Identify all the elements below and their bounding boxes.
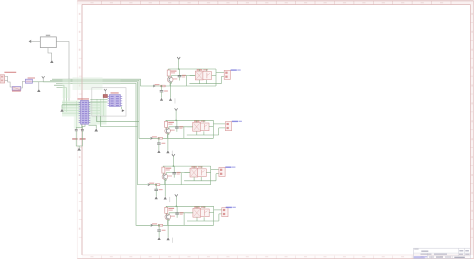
wire bus line3 to row3 [43, 82, 148, 185]
wire drop to IC1 pins b [57, 88, 67, 108]
wire relay K1 bottom pins [198, 80, 200, 84]
wire X1 pin2 [5, 80, 8, 82]
wire relay K1 left pin [190, 75, 196, 77]
vcc arrow above D2 [104, 91, 106, 95]
wire relay K2 top pins [196, 120, 198, 122]
wire relay K4 right pin [209, 212, 213, 214]
connector JP2 [225, 122, 231, 131]
wire IC1 left pin to ground [62, 104, 81, 106]
frame left line re-stroke over highlights [81, 77, 83, 130]
wire relay K1 top pins [198, 69, 200, 71]
transistor T3 label [168, 175, 172, 176]
sheet frame inner border [82, 4, 470, 6]
relay K3 label [191, 166, 196, 167]
wire emitter row 2 to ground [168, 133, 169, 150]
wire vcc rail row 3 [163, 165, 211, 167]
capacitor C2 label [80, 138, 86, 139]
wire emitter row 4 to ground [168, 219, 169, 237]
diode D1 label [12, 90, 21, 91]
IC1 label [78, 98, 90, 99]
wire base rail row 2 [151, 137, 214, 139]
battery B1 label [46, 35, 50, 36]
wire connector JP3 pin wires [211, 169, 219, 171]
capacitor C3a [173, 166, 175, 172]
IC2 driver [108, 95, 110, 97]
ground left of IC1 [60, 109, 63, 112]
capacitor C1 label [72, 138, 77, 139]
connector JP3 [219, 167, 225, 176]
wire collector row 2 to relay [168, 127, 170, 129]
wire L1 to VCC node [32, 81, 43, 83]
wire vcc rail row 1 [168, 68, 216, 70]
relay K4 coil [193, 208, 201, 217]
net label row 4 vertical [171, 238, 174, 243]
vcc symbol row 2 [175, 108, 178, 110]
relay K2 coil [193, 122, 201, 131]
highlighted nets around IC1 [73, 77, 103, 90]
wire connector JP1 pin wires [216, 72, 224, 74]
ground below B1 [50, 60, 53, 63]
transistor T4 label [171, 216, 175, 217]
wire bus line1 to row1 [43, 81, 56, 83]
net label row 2 vertical [171, 151, 174, 156]
resistor R2b base [158, 138, 162, 140]
connector JP2 label [232, 121, 238, 122]
connector JP1 [224, 70, 230, 79]
capacitor C3b label [159, 189, 163, 190]
inductor L1 [25, 79, 32, 83]
ground row 2 left [157, 150, 160, 153]
relay K3 coil [190, 168, 198, 177]
ground row 1 left [160, 98, 163, 101]
capacitor C2a label [179, 126, 183, 127]
resistor R4a pullup [165, 206, 167, 207]
capacitor C2b label [162, 143, 166, 144]
supply connector X1 [0, 75, 5, 83]
resistor R3a pullup [162, 166, 164, 167]
sheet frame strips [77, 1, 473, 5]
wire connector JP4 pin wires [214, 209, 222, 211]
wire D1 to L1 [21, 82, 26, 89]
resistor R2a label [168, 122, 174, 123]
wire relay K1 right pin [212, 74, 216, 76]
wire IC2 output to net arrow [120, 106, 122, 109]
wire X1 pin1 [5, 76, 13, 87]
wire B1 right pin to IC1 [56, 42, 80, 104]
capacitor C2b to ground [158, 138, 160, 140]
wire relay K3 right pin [206, 172, 210, 174]
capacitor C2a [176, 120, 178, 126]
relay K1 contact [203, 72, 212, 80]
wire emitter row 3 to ground [165, 179, 166, 197]
resistor R4b base [158, 225, 162, 227]
vcc net arrow at supply [42, 78, 44, 82]
wire vcc rail row 4 [166, 205, 214, 207]
resistor R3b base [155, 184, 159, 186]
wire IC1 to crystal caps [76, 124, 82, 129]
relay K2 label [194, 121, 199, 122]
resistor R1a label [171, 71, 177, 72]
ground row 3 left [155, 196, 158, 199]
diode D1 [12, 87, 21, 91]
ground below crystal caps [77, 148, 81, 151]
wire relay K3 left pin [184, 172, 190, 174]
connector JP3 label [225, 167, 231, 168]
capacitor C2 [81, 129, 84, 131]
wire collector row 4 to relay [168, 213, 170, 215]
wire IC2 bottom outputs to bus [97, 116, 139, 122]
relay K2 contact [200, 123, 209, 131]
ground right of IC1 [94, 128, 98, 131]
net label row 3 vertical [168, 197, 171, 202]
inductor L1 label [28, 77, 35, 78]
connector JP1 label [231, 69, 237, 70]
wire relay K4 top pins [196, 206, 198, 208]
capacitor C1b label [164, 90, 168, 91]
wire base rail row 3 [148, 184, 211, 186]
connector JP4 label [226, 207, 232, 208]
title block outline [413, 248, 470, 258]
capacitor C4a label [180, 212, 184, 213]
wire IC1 bottom to ground right [89, 125, 97, 128]
vcc symbol row 1 [177, 57, 180, 59]
group frame around IC2 [92, 88, 126, 116]
wire connector JP2 pin wires [213, 123, 225, 125]
wire vcc rail row 2 [166, 119, 214, 121]
wire caps to ground [76, 133, 79, 146]
battery B1 [40, 37, 56, 48]
supply connector X1 label [4, 72, 16, 73]
wire IC1 to IC2 [90, 99, 107, 101]
wire drop to IC1 pins a [54, 85, 64, 105]
wire relay K2 bottom pins [196, 131, 198, 135]
frame row ticks left/right [79, 21, 82, 23]
capacitor C1a [179, 69, 181, 75]
vcc symbol row 4 [175, 194, 178, 196]
ground row 4 left [158, 237, 161, 240]
wire relay K3 bottom pins [193, 177, 195, 181]
net label row 1 vertical [174, 98, 177, 103]
relay K4 label [194, 207, 199, 208]
capacitor C1 [75, 129, 78, 131]
wire relay K3 top pins [193, 166, 195, 168]
IC1 microcontroller [79, 101, 81, 103]
sheet frame outer border [77, 0, 473, 2]
net chevron row 4 input [151, 224, 153, 226]
wire relay K4 left pin [187, 212, 193, 214]
transistor T2 [165, 128, 171, 134]
net chevron row 1 input [153, 85, 155, 87]
transistor T1 [167, 77, 173, 83]
transistor T2 label [170, 130, 174, 131]
connector JP4 [222, 208, 228, 217]
ground row 4 emitter [167, 237, 170, 240]
resistor R1b base label [155, 84, 160, 85]
transistor T4 [165, 214, 171, 220]
frame column ticks top/bottom [100, 1, 102, 5]
wire collector row 3 to relay [165, 173, 167, 175]
resistor R4a label [169, 208, 175, 209]
capacitor C4b label [162, 230, 166, 231]
capacitor C4a [176, 206, 178, 212]
net chevron row 2 input [151, 137, 153, 139]
wire relay K2 left pin [187, 126, 193, 128]
resistor R2b base label [152, 136, 157, 137]
wire base rail row 1 [153, 85, 216, 87]
net arrow left of B1 [29, 40, 32, 43]
ground row 2 emitter [166, 150, 169, 153]
resistor R1a pullup [168, 69, 170, 70]
ground row 1 emitter [169, 98, 172, 101]
relay K1 label [197, 69, 202, 70]
capacitor C3b to ground [155, 184, 157, 186]
capacitor C1a label [182, 75, 186, 76]
transistor T3 [162, 174, 168, 180]
vcc symbol row 3 [172, 154, 175, 156]
resistor R4b base label [152, 223, 157, 224]
resistor R3a label [166, 168, 172, 169]
title block file path blue [414, 255, 427, 258]
wire relay K2 right pin [209, 126, 213, 128]
wire collector row 1 to relay [171, 76, 173, 78]
wire B1 left pin [31, 40, 41, 42]
wire B1 bottom pin [48, 48, 52, 60]
relay K4 contact [201, 209, 210, 217]
ground row 3 emitter [164, 197, 167, 200]
transistor T1 label [173, 78, 177, 79]
wire relay K4 bottom pins [196, 217, 198, 221]
net chevron row 3 input [148, 184, 150, 186]
net arrow at IC2 output [122, 109, 125, 112]
diode D2 [103, 95, 107, 98]
capacitor C1b to ground [161, 85, 163, 87]
resistor R3b base label [149, 183, 154, 184]
wire emitter row 1 to ground [171, 82, 172, 98]
resistor R1b base [161, 85, 165, 87]
capacitor C4b to ground [158, 225, 160, 227]
relay K3 contact [198, 169, 207, 177]
wire base rail row 4 [151, 224, 214, 226]
wire bus line2 to row2 [50, 80, 151, 138]
wire bus line4 to row4 [56, 83, 151, 225]
ground on supply rail [38, 82, 40, 89]
relay K1 coil [195, 71, 203, 80]
IC2 label [111, 92, 119, 93]
resistor R2a pullup [165, 120, 167, 121]
capacitor C3a label [177, 172, 181, 173]
title block texts [414, 249, 418, 250]
